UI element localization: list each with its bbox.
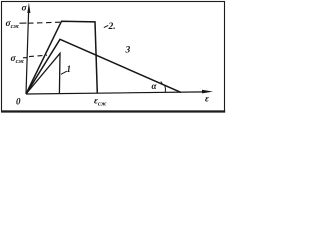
svg-text:ε: ε xyxy=(205,95,209,105)
curve 3 (rise and long descent) xyxy=(26,39,181,94)
dashed level line upper sigma_czh xyxy=(28,22,60,23)
epsilon axis (horizontal) xyxy=(26,92,205,94)
epsilon axis arrowhead xyxy=(202,90,213,94)
svg-text:σ: σ xyxy=(22,4,28,14)
svg-text:2.: 2. xyxy=(108,22,116,32)
leader dash for label 1 xyxy=(61,71,67,74)
leader dash for label 2 xyxy=(104,25,108,27)
curve 1 (rise and vertical drop) xyxy=(26,53,60,94)
svg-text:0: 0 xyxy=(16,97,21,107)
sigma axis arrowhead xyxy=(27,3,30,14)
frame bottom thick edge xyxy=(1,110,225,112)
angle arc alpha xyxy=(164,85,167,92)
prime mark after alpha xyxy=(161,82,163,85)
curve 2 (trapezoid: rise, plateau, vertical drop) xyxy=(26,21,97,94)
tick through axis at lower sigma level xyxy=(23,57,28,59)
frame border xyxy=(2,2,225,112)
tick through axis at upper sigma level xyxy=(20,22,27,24)
sigma axis (vertical) xyxy=(26,8,29,94)
svg-text:3: 3 xyxy=(125,46,131,56)
svg-text:1: 1 xyxy=(67,64,72,74)
dashed level line lower sigma_czh xyxy=(29,55,47,56)
